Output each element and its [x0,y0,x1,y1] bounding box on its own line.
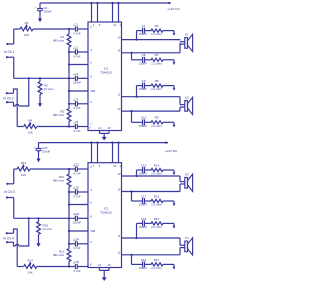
input connector In Ch.3 [6,183,8,185]
op-amp/power-amp IC2 TDA8215 [88,163,122,268]
svg-text:150nF: 150nF [139,124,148,128]
wire IC1 pin11 output [122,96,181,98]
wire row pin3 [69,51,75,53]
wire junction to zobel C17R15 [131,192,133,202]
wire TAB row [69,90,88,92]
wire jack4 return with hop [14,242,16,246]
svg-text:15: 15 [108,126,111,130]
svg-text:C16: C16 [141,163,147,167]
svg-text:K1: K1 [185,33,189,37]
svg-text:10K: 10K [28,131,33,135]
ground IC1 [103,133,105,137]
svg-text:C23: C23 [74,212,80,216]
svg-text:2.2 ohm: 2.2 ohm [151,225,162,229]
capacitor C25 4.7uF [74,264,76,269]
svg-text:TAB: TAB [90,229,95,233]
node +12V DC (bottom) [165,142,167,144]
resistor R11 680 ohm [67,249,71,262]
IC2 supply pins 4 9 10 13 to rail [91,143,93,163]
wire IC1 pin10 output [122,39,181,41]
svg-text:C18: C18 [141,217,147,221]
wire IC2 pinB output ch3 [122,191,181,193]
ground C6 [39,16,41,19]
svg-text:680 ohm: 680 ohm [53,39,65,43]
svg-text:10K: 10K [21,173,26,177]
wire IC1 pin16 output [122,52,181,54]
svg-text:2.2 ohm: 2.2 ohm [151,32,162,36]
svg-text:10 ohm: 10 ohm [44,87,54,91]
svg-text:C3: C3 [75,72,79,76]
svg-text:R17: R17 [154,258,160,262]
capacitor C5 4.7uF [74,124,76,129]
svg-text:+12V DC: +12V DC [167,7,180,11]
svg-text:10: 10 [113,23,116,27]
loudspeaker K4 [180,244,185,246]
svg-text:680 ohm: 680 ohm [53,253,65,257]
svg-text:4.7uF: 4.7uF [73,106,81,110]
resistor R5 10 ohm to ground [39,78,41,81]
svg-text:R8: R8 [155,79,159,83]
capacitor C3 220nF [74,76,76,81]
resistor R1 680 ohm [67,34,71,47]
potentiometer R3 10K volume ch1 [14,28,20,30]
svg-text:In Ch 1: In Ch 1 [4,50,15,54]
svg-text:150nF: 150nF [139,87,148,91]
IC1 supply pins 4 9 10 13 to rail [91,3,93,22]
loudspeaker K2 [180,104,185,106]
svg-text:100uF: 100uF [44,9,52,13]
wire jack3 signal up to pot [13,169,15,184]
bias bus vertical (IC2) [68,169,70,174]
wire jack4 signal to pot R13 [14,229,18,267]
capacitor C1 4.7uF input coupling ch1 [74,26,76,31]
svg-text:K2: K2 [185,96,189,100]
wire pot R3 to C1 [33,28,75,30]
wire pot R12 to C21 [30,168,75,170]
zobel C19 150nF R17 2.2 ohm with ground [132,263,143,265]
svg-text:2.2 ohm: 2.2 ohm [151,87,162,91]
svg-text:10K: 10K [24,33,29,37]
potentiometer R4 10K volume ch2 [17,126,23,128]
ground C20 [38,156,40,159]
wire jack1 signal up to pot [13,29,15,44]
svg-text:10K: 10K [28,271,33,275]
svg-text:11: 11 [118,93,121,97]
svg-text:10: 10 [117,172,120,176]
svg-text:In Ch.2: In Ch.2 [3,96,14,100]
wire bends into speaker K2 [179,97,181,105]
svg-text:150nF: 150nF [139,172,148,176]
+12V DC supply rail (bottom) [39,142,169,144]
svg-text:TAB: TAB [90,89,95,93]
svg-text:4.7uF: 4.7uF [73,269,81,273]
svg-text:2.2 ohm: 2.2 ohm [151,266,162,270]
svg-text:+12V DC: +12V DC [165,149,178,153]
svg-text:4.7uF: 4.7uF [73,129,81,133]
svg-text:16: 16 [117,187,120,191]
capacitor C22 4.7uF [74,189,76,194]
capacitor C6 100uF supply decoupling [39,3,41,9]
wire row pin6 [69,103,75,105]
svg-text:16: 16 [117,49,120,53]
capacitor C4 4.7uF [74,101,76,106]
ground IC2 [103,270,105,278]
wire IC2 pinA output ch4 [122,237,181,239]
resistor R2 680 ohm [67,109,71,122]
resistor R18 10 ohm to ground [38,218,40,221]
ground R18 [38,235,40,244]
input connector In Ch.2 [6,92,8,94]
input connector In Ch 4 [6,232,8,234]
svg-text:In Ch 4: In Ch 4 [3,236,14,240]
wire bends into speaker K3 [179,176,181,182]
capacitor C24 4.7uF [74,241,76,246]
wire row pin6 (IC2) [69,243,75,245]
capacitor C21 4.7uF input coupling ch3 [74,166,76,171]
svg-text:12: 12 [117,107,120,111]
svg-text:100uF: 100uF [42,149,50,153]
zobel C8 150nF R7 2.2 ohm with ground [132,59,143,61]
wire IC2 pinB output ch4 [122,254,181,256]
wire IC1 pin12 output [122,110,181,112]
svg-text:R9: R9 [155,116,159,120]
svg-text:C22: C22 [74,186,80,190]
loudspeaker K1 [180,41,185,43]
op-amp/power-amp IC1 TDA8215 [88,22,122,131]
svg-text:4.7uF: 4.7uF [73,31,81,35]
wire junction to zobel C19R17 [131,255,133,265]
zobel C10 150nF R9 2.2 ohm with ground [132,121,143,123]
svg-text:K4: K4 [185,236,189,240]
zobel C17 150nF R15 2.2 ohm with ground [132,200,143,202]
svg-text:4.7uF: 4.7uF [73,171,81,175]
svg-text:680 ohm: 680 ohm [53,113,65,117]
wire junction to zobel C10R9 [131,111,133,122]
svg-text:R6: R6 [155,24,159,28]
zobel C16 150nF R14 2.2 ohm with ground [137,169,143,171]
wire junction to zobel C18R16 [136,223,138,238]
svg-text:680 ohm: 680 ohm [53,179,65,183]
wire row pin5 (IC2) [69,204,88,206]
svg-text:K3: K3 [185,173,189,177]
resistor R10 680 ohm [67,174,71,187]
svg-text:150nF: 150nF [139,32,148,36]
wire junction to zobel C7R6 [136,31,138,40]
svg-text:10: 10 [113,164,116,168]
svg-text:C19: C19 [141,258,147,262]
zobel C9 150nF R8 2.2 ohm with ground [137,85,143,87]
svg-text:C9: C9 [142,79,146,83]
svg-text:14: 14 [98,126,101,130]
wire pot R13 to C25 [37,266,76,268]
svg-text:C17: C17 [141,194,147,198]
wire bends into speaker K4 [179,238,181,245]
svg-text:C1: C1 [75,23,79,27]
bias bus vertical [68,29,70,34]
+12V DC supply rail (top) [40,2,171,4]
svg-text:C21: C21 [74,163,80,167]
ground/reference row ch1-ch2 [14,77,76,79]
svg-text:220nF: 220nF [73,81,81,85]
ground/reference row ch3-ch4 [14,217,76,219]
node bus top [68,28,70,30]
potentiometer R12 10K volume ch3 [14,168,17,170]
svg-text:4.7uF: 4.7uF [73,246,81,250]
wire jack2 return with hop [14,102,16,106]
svg-text:C10: C10 [141,116,147,120]
svg-text:R3: R3 [25,21,29,25]
svg-text:150nF: 150nF [139,203,148,207]
svg-text:R16: R16 [154,217,160,221]
wire bends into speaker K1 [179,39,181,42]
svg-text:4.7uF: 4.7uF [73,194,81,198]
svg-text:220nF: 220nF [73,221,81,225]
svg-text:C25: C25 [74,260,80,264]
svg-text:2.2 ohm: 2.2 ohm [151,172,162,176]
wire row pin3 (IC2) [69,191,75,193]
input connector In Ch 1 [6,43,8,45]
svg-text:C4: C4 [75,97,79,101]
wire jack2 signal to pot R4 [14,89,18,127]
svg-text:In Ch.3: In Ch.3 [4,190,15,194]
node +12V DC (top) [168,2,170,4]
svg-text:14: 14 [98,263,101,267]
capacitor C2 4.7uF [74,49,76,54]
svg-text:4.7uF: 4.7uF [73,54,81,58]
wire TAB row (IC2) [69,230,88,232]
wire junction to zobel C16R14 [136,170,138,176]
capacitor C23 220nF [74,216,76,221]
wire jack3 return down to ground row [13,198,15,219]
svg-text:C24: C24 [74,237,80,241]
svg-text:R7: R7 [155,53,159,57]
svg-text:12: 12 [117,251,120,255]
potentiometer R13 10K volume ch4 [17,266,23,268]
svg-text:C2: C2 [75,46,79,50]
loudspeaker K3 [180,181,185,183]
svg-text:10: 10 [117,35,120,39]
svg-text:R4: R4 [28,119,32,123]
svg-text:10 ohm: 10 ohm [43,227,53,231]
svg-text:2.2 ohm: 2.2 ohm [151,61,162,65]
svg-text:C8: C8 [142,53,146,57]
wire junction to zobel C9R8 [136,86,138,97]
svg-text:150nF: 150nF [139,61,148,65]
svg-text:150nF: 150nF [139,266,148,270]
wire pot R4 to C5 [37,126,76,128]
svg-text:C7: C7 [142,24,146,28]
wire jack1 return down to ground row [13,57,15,78]
svg-text:R15: R15 [154,194,160,198]
svg-text:2.2 ohm: 2.2 ohm [151,203,162,207]
svg-text:TDA8215: TDA8215 [100,70,112,74]
svg-text:TDA8215: TDA8215 [100,210,112,214]
svg-text:150nF: 150nF [139,225,148,229]
zobel C18 150nF R16 2.2 ohm with ground [137,222,143,224]
wire junction to zobel C8R7 [131,53,133,60]
svg-text:C5: C5 [75,120,79,124]
svg-text:15: 15 [108,263,111,267]
svg-text:R12: R12 [21,161,27,165]
svg-text:R13: R13 [28,259,34,263]
svg-text:R14: R14 [154,163,160,167]
wire row pin5 [69,64,88,66]
ground R5 [39,95,41,104]
wire IC2 pinA output ch3 [122,175,181,177]
zobel C7 150nF R6 2.2 ohm with ground [137,30,143,32]
svg-text:2.2 ohm: 2.2 ohm [151,124,162,128]
capacitor C20 100uF supply decoupling [38,143,40,149]
svg-text:11: 11 [118,234,121,238]
